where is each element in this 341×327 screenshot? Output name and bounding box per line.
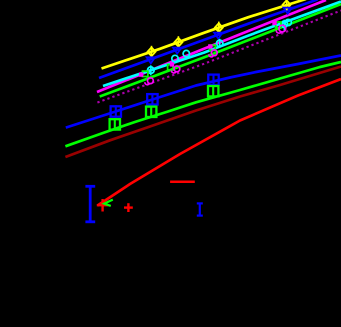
cyan circle C4a error bar (283, 20, 285, 31)
green mid square G3 bar (212, 85, 214, 97)
red plus P1 horizontal (97, 204, 109, 206)
green square S2 (168, 65, 173, 70)
blue large error bar bottom cap (85, 220, 95, 223)
cyan circle C1 error bar (150, 65, 152, 75)
cyan circle C3 error bar (219, 39, 221, 48)
green mid square G2 bar (150, 106, 152, 118)
magenta hook M2 (171, 70, 176, 73)
green mid square G3 (208, 86, 218, 96)
green mid square G1 bar (114, 118, 116, 130)
cyan line (103, 2, 341, 87)
cyan circle C2a (172, 55, 178, 61)
magenta line (97, 0, 326, 92)
yellow diamond D4 (283, 0, 291, 9)
blue triangle T2 (173, 48, 181, 54)
magenta filled square F1 (139, 72, 143, 76)
blue large error bar top cap (85, 185, 95, 188)
red curve (98, 79, 341, 206)
green square S4 (276, 22, 281, 27)
green arrow (104, 200, 113, 206)
blue mid square B2 bar (151, 93, 153, 105)
yellow diamond D2 (174, 38, 182, 47)
green mid line (65, 62, 341, 146)
magenta filled square F4 (272, 21, 276, 25)
maroon line (65, 67, 341, 158)
yellow diamond D3 (215, 23, 223, 32)
blue mid square B3 bar (212, 74, 214, 86)
magenta circle M1 (148, 78, 154, 84)
magenta circle M4 (279, 25, 286, 32)
magenta hook M1 (145, 82, 150, 85)
yellow diamond D1 error bar (151, 46, 153, 58)
red legend dash (170, 181, 195, 184)
blue triangle T4 (284, 8, 292, 14)
red plus P2 vertical (127, 203, 129, 212)
cyan circle C1 (148, 67, 155, 74)
dark magenta dashed line (97, 11, 341, 103)
cyan circle C4b (285, 19, 291, 25)
blue mid square B1 bar (115, 105, 117, 117)
yellow diamond D3 error bar (218, 22, 220, 34)
magenta circle M3 (211, 50, 217, 56)
green mid square G1 (110, 119, 120, 129)
yellow diamond D1 (148, 47, 156, 56)
yellow diamond D2 error bar (177, 36, 179, 48)
magenta circle M2 (174, 66, 180, 72)
blue mid square B2 (147, 94, 157, 104)
green top line (100, 4, 341, 96)
blue mid square B3 (208, 75, 218, 85)
green mid square G2 (146, 107, 156, 117)
magenta filled square F2 (170, 62, 174, 66)
cyan circle C2b (183, 50, 189, 56)
red plus P1 vertical (101, 199, 103, 212)
magenta hook M3 (209, 54, 214, 57)
blue triangle T1 (147, 57, 155, 63)
green square S3 (210, 45, 215, 50)
yellow diamond D4 error bar (286, 0, 288, 10)
magenta filled square F3 (208, 44, 212, 48)
blue small error bar bottom cap (197, 215, 203, 217)
blue small error bar top cap (197, 202, 203, 204)
yellow line (102, 0, 307, 69)
blue triangle T3 (214, 33, 222, 39)
green square S1 (143, 71, 148, 76)
blue mid line (66, 56, 341, 128)
blue top line (99, 0, 318, 78)
cyan circle C3 (217, 40, 223, 46)
cyan circle C4a (281, 21, 287, 27)
blue mid square B1 (111, 106, 121, 116)
red plus P2 horizontal (124, 206, 133, 208)
magenta hook M4 (276, 30, 281, 33)
blue large error bar (89, 186, 92, 223)
blue small error bar (199, 203, 201, 216)
